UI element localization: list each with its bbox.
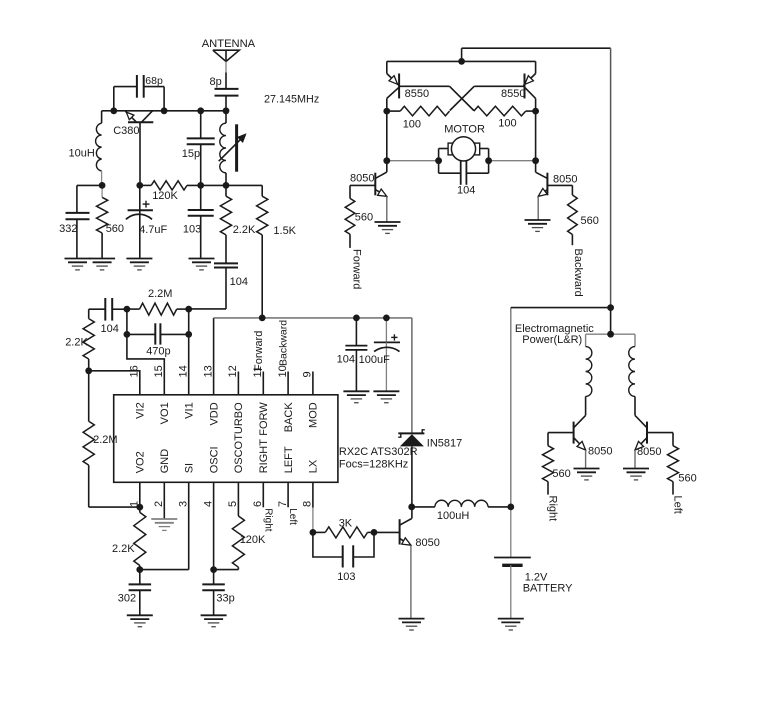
svg-text:VI2: VI2 [135, 402, 147, 419]
svg-text:Forward: Forward [253, 331, 265, 371]
svg-text:RX2C ATS302R: RX2C ATS302R [339, 446, 418, 458]
svg-text:RIGHT: RIGHT [258, 439, 270, 474]
svg-text:560: 560 [678, 473, 696, 485]
svg-text:8550: 8550 [405, 88, 429, 100]
svg-text:9: 9 [302, 371, 314, 377]
svg-text:100uF: 100uF [359, 354, 390, 366]
svg-text:2.2M: 2.2M [148, 288, 172, 300]
svg-text:4.7uF: 4.7uF [139, 224, 167, 236]
svg-text:3: 3 [177, 501, 189, 507]
svg-text:7: 7 [277, 501, 289, 507]
svg-text:VI1: VI1 [183, 402, 195, 419]
svg-text:2.2K: 2.2K [65, 337, 88, 349]
svg-text:15p: 15p [182, 148, 200, 160]
svg-text:332: 332 [59, 223, 77, 235]
svg-text:8050: 8050 [637, 446, 661, 458]
svg-text:VO1: VO1 [159, 402, 171, 424]
svg-text:5: 5 [227, 501, 239, 507]
svg-text:Left: Left [287, 508, 298, 525]
svg-text:12: 12 [227, 365, 239, 377]
svg-text:8050: 8050 [415, 537, 439, 549]
svg-text:13: 13 [202, 365, 214, 377]
svg-text:103: 103 [337, 571, 355, 583]
svg-text:104: 104 [101, 323, 119, 335]
svg-text:560: 560 [581, 215, 599, 227]
svg-text:FORW: FORW [258, 402, 270, 436]
svg-text:LEFT: LEFT [283, 446, 295, 473]
svg-text:10uH: 10uH [69, 147, 95, 159]
svg-text:TURBO: TURBO [233, 402, 245, 441]
svg-text:Right: Right [262, 508, 273, 532]
svg-text:104: 104 [457, 184, 475, 196]
svg-text:2.2K: 2.2K [233, 224, 256, 236]
svg-text:120K: 120K [152, 190, 178, 202]
svg-text:1.5K: 1.5K [273, 225, 296, 237]
svg-text:302: 302 [118, 593, 136, 605]
svg-text:Left: Left [672, 496, 684, 514]
svg-text:BATTERY: BATTERY [523, 582, 573, 594]
svg-text:8050: 8050 [588, 446, 612, 458]
svg-text:IN5817: IN5817 [427, 437, 462, 449]
svg-text:470p: 470p [146, 346, 170, 358]
svg-text:OSCO: OSCO [233, 440, 245, 473]
svg-text:120K: 120K [240, 534, 266, 546]
svg-text:Backward: Backward [572, 249, 584, 297]
svg-text:MOTOR: MOTOR [444, 124, 485, 136]
svg-text:ANTENNA: ANTENNA [202, 38, 256, 50]
svg-text:VDD: VDD [208, 402, 220, 425]
svg-text:8: 8 [302, 501, 314, 507]
svg-text:104: 104 [337, 354, 355, 366]
svg-text:LX: LX [308, 459, 320, 473]
svg-text:27.145MHz: 27.145MHz [264, 94, 319, 106]
svg-text:8p: 8p [210, 76, 222, 88]
svg-text:100uH: 100uH [437, 510, 469, 522]
svg-text:560: 560 [355, 212, 373, 224]
svg-text:2.2K: 2.2K [112, 543, 135, 555]
svg-text:VO2: VO2 [135, 451, 147, 473]
svg-text:10: 10 [277, 365, 289, 377]
svg-text:15: 15 [153, 365, 165, 377]
svg-text:2: 2 [153, 501, 165, 507]
svg-text:560: 560 [106, 223, 124, 235]
svg-text:Focs=128KHz: Focs=128KHz [339, 459, 408, 471]
svg-text:MOD: MOD [308, 402, 320, 428]
svg-text:8550: 8550 [501, 88, 525, 100]
svg-text:100: 100 [403, 119, 421, 131]
svg-text:103: 103 [183, 224, 201, 236]
svg-text:Right: Right [547, 496, 559, 522]
svg-text:100: 100 [498, 118, 516, 130]
svg-text:16: 16 [129, 365, 141, 377]
svg-text:8050: 8050 [553, 174, 577, 186]
svg-text:104: 104 [230, 276, 248, 288]
svg-text:GND: GND [159, 449, 171, 474]
svg-text:68p: 68p [145, 75, 163, 87]
svg-text:SI: SI [183, 463, 195, 473]
svg-text:BACK: BACK [283, 402, 295, 433]
svg-text:3K: 3K [339, 517, 353, 529]
svg-text:560: 560 [552, 468, 570, 480]
svg-text:Backward: Backward [278, 320, 290, 366]
svg-text:6: 6 [252, 501, 264, 507]
svg-text:C380: C380 [113, 125, 139, 137]
svg-text:OSCI: OSCI [208, 446, 220, 473]
svg-text:4: 4 [202, 501, 214, 507]
svg-text:8050: 8050 [350, 173, 374, 185]
svg-text:Power(L&R): Power(L&R) [522, 334, 582, 346]
svg-text:14: 14 [177, 365, 189, 377]
svg-text:Forward: Forward [351, 249, 363, 289]
svg-text:33p: 33p [216, 593, 234, 605]
